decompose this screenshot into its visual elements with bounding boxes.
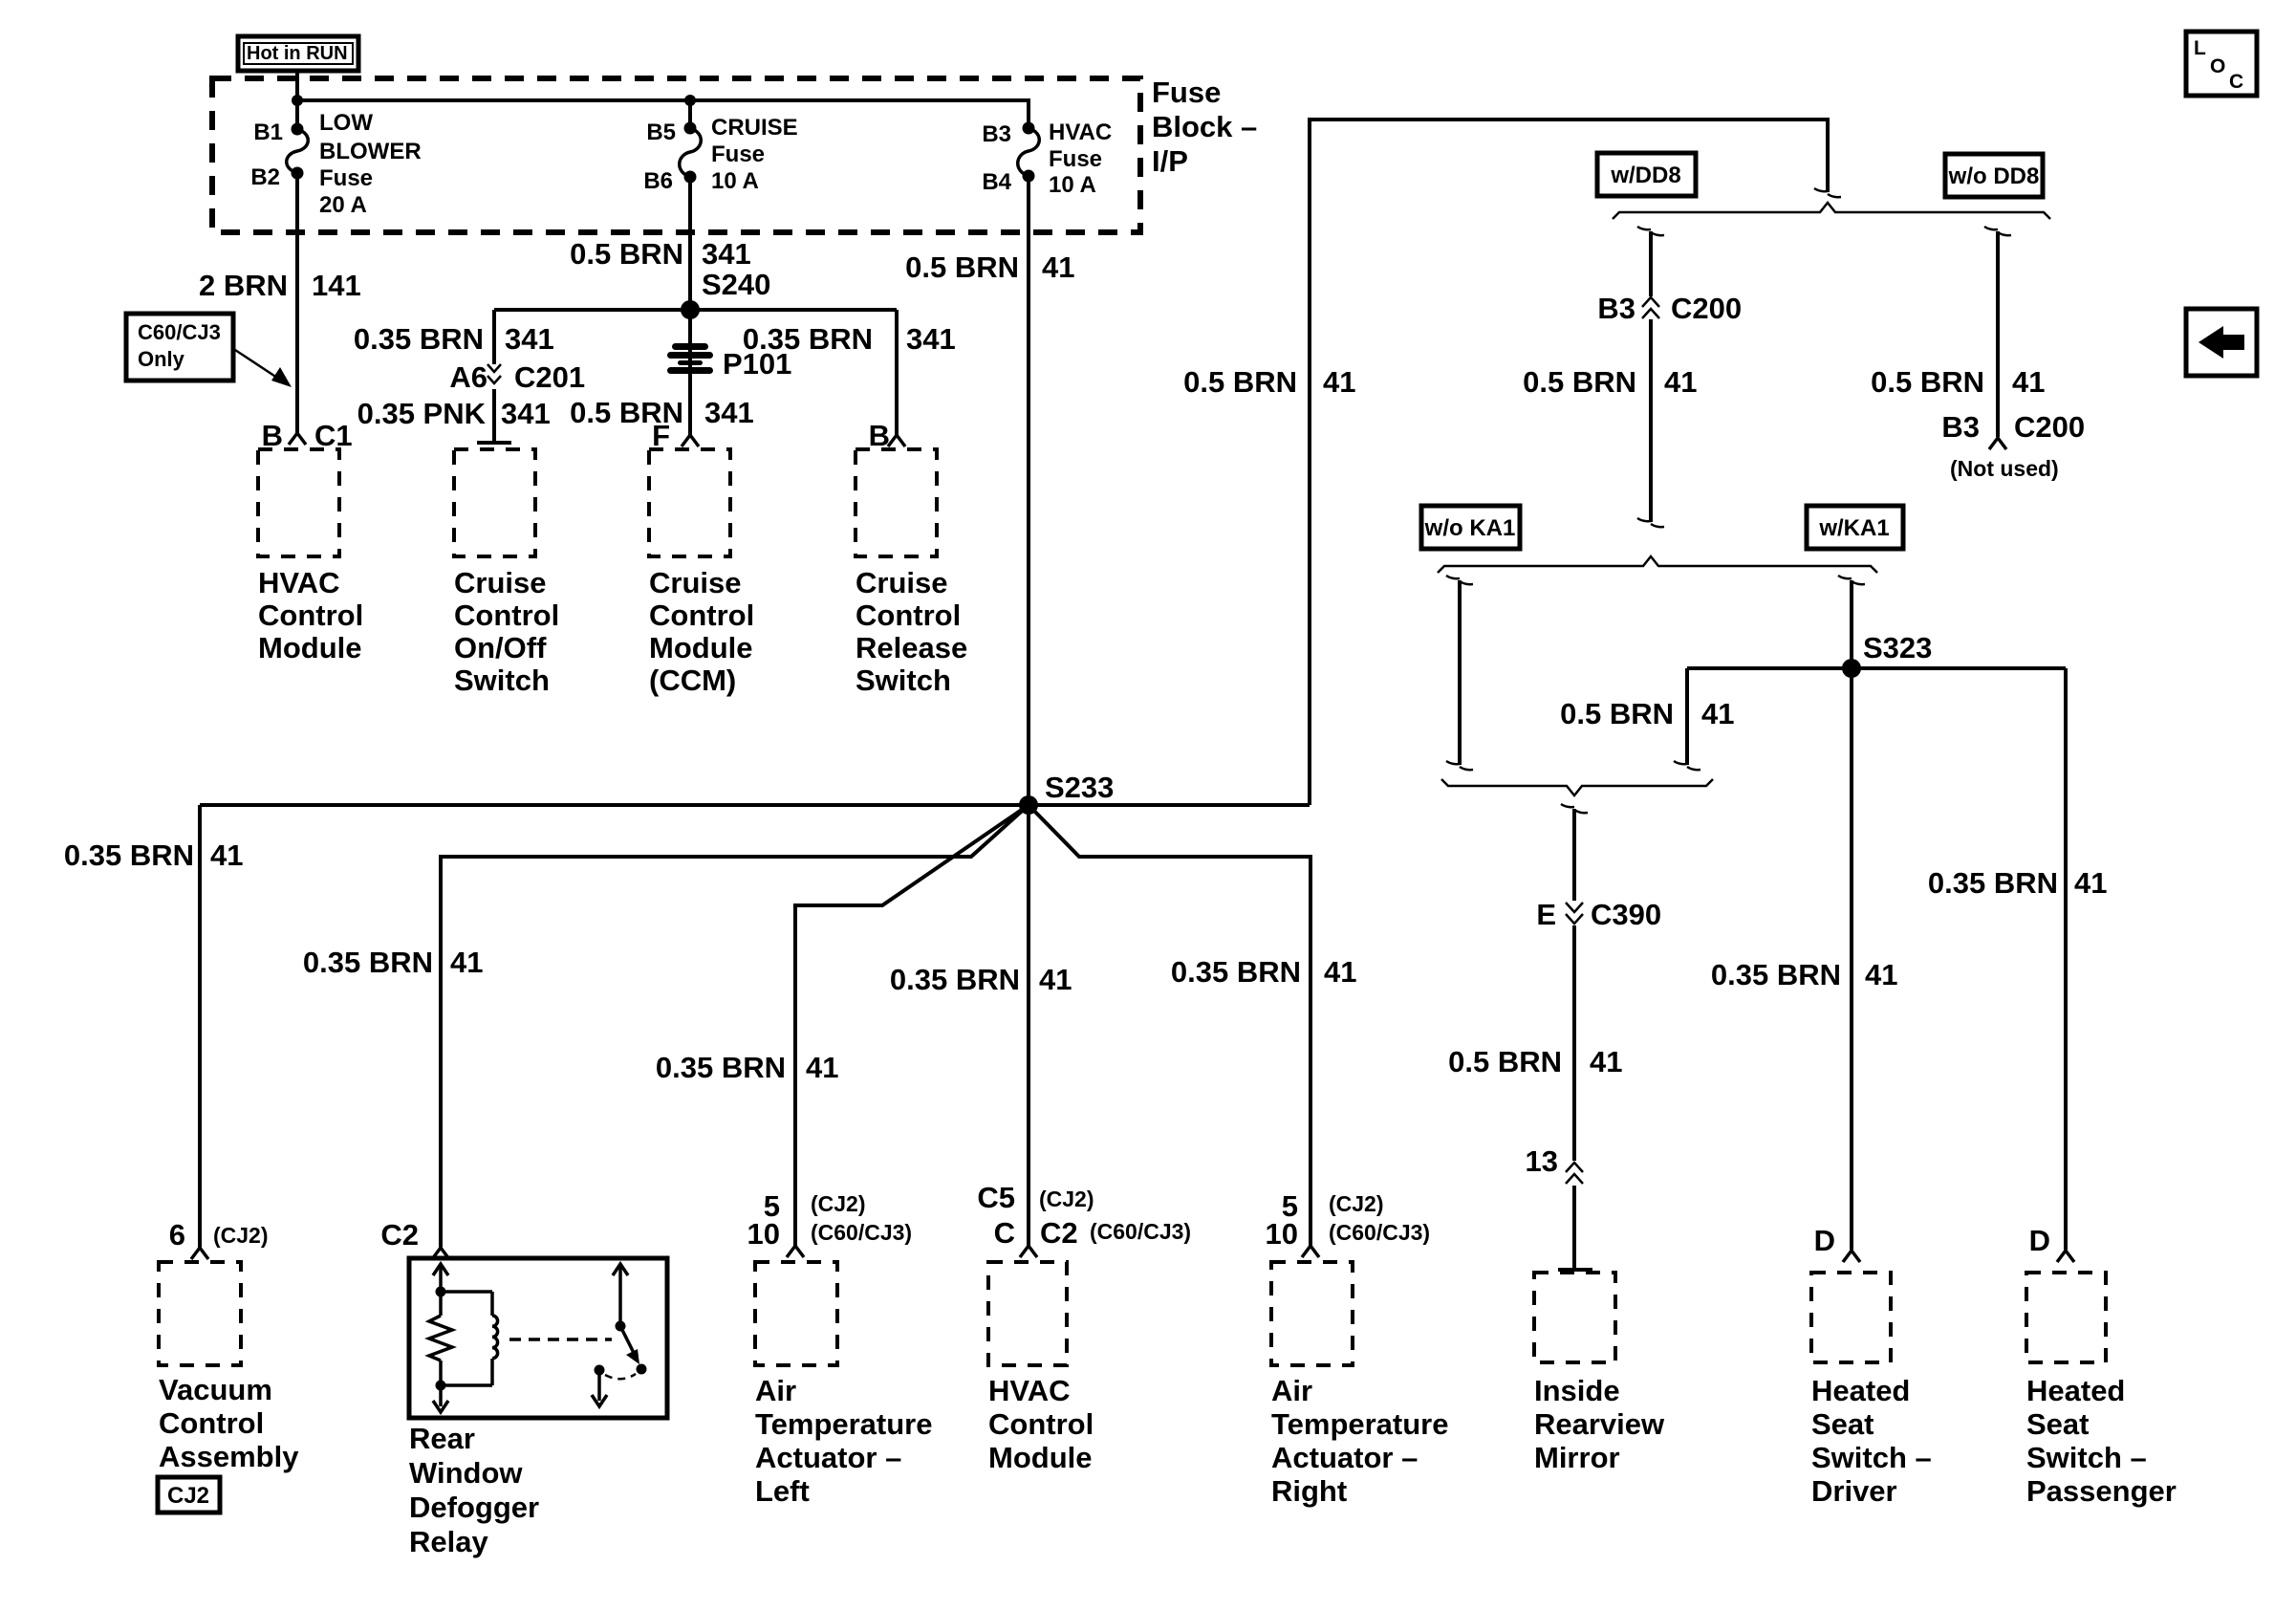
svg-text:Actuator –: Actuator – — [1271, 1441, 1418, 1474]
svg-text:Relay: Relay — [409, 1525, 488, 1558]
svg-text:Fuse: Fuse — [1152, 76, 1221, 109]
svg-text:Cruise: Cruise — [856, 566, 947, 599]
svg-text:C: C — [2229, 71, 2243, 93]
wire B6 to S240 — [688, 177, 692, 310]
svg-text:10 A: 10 A — [711, 168, 759, 194]
wire S323 to merge brace — [1674, 668, 1700, 770]
svg-text:0.35 BRN: 0.35 BRN — [354, 322, 484, 356]
connector E C390 — [1536, 898, 1661, 931]
label 0.35 PNK 341 — [357, 397, 551, 430]
svg-text:B5: B5 — [646, 120, 676, 145]
svg-text:D: D — [1814, 1224, 1835, 1257]
svg-text:Air: Air — [1271, 1374, 1312, 1407]
C60/CJ3 Only note box — [126, 314, 233, 381]
svg-text:341: 341 — [704, 396, 754, 429]
Cruise Control Release Switch connector box — [856, 449, 937, 556]
svg-text:HVAC: HVAC — [1049, 120, 1112, 145]
svg-text:Switch: Switch — [856, 664, 951, 697]
branch to Cruise Control Module CCM — [688, 310, 692, 435]
svg-text:Fuse: Fuse — [319, 165, 373, 191]
node bus-B1 — [292, 95, 303, 106]
label 0.35 BRN 341 — [354, 322, 554, 356]
svg-text:E: E — [1536, 898, 1556, 931]
svg-text:0.5 BRN: 0.5 BRN — [1448, 1045, 1562, 1078]
svg-text:S240: S240 — [702, 268, 770, 301]
svg-text:B2: B2 — [250, 164, 280, 190]
svg-text:41: 41 — [1042, 250, 1074, 284]
svg-text:Heated: Heated — [2026, 1374, 2125, 1407]
svg-text:Air: Air — [755, 1374, 796, 1407]
svg-text:Temperature: Temperature — [755, 1407, 933, 1441]
node bus-B5 — [684, 95, 696, 106]
svg-text:41: 41 — [1664, 365, 1697, 399]
svg-text:L: L — [2194, 37, 2206, 59]
Air Temperature Actuator Right connector box — [1271, 1262, 1353, 1365]
svg-text:Switch –: Switch – — [1811, 1441, 1932, 1474]
wire from Hot in RUN to fuse block bus — [295, 73, 299, 102]
label 0.35 BRN 41 — [656, 1051, 839, 1084]
svg-text:Mirror: Mirror — [1534, 1441, 1620, 1474]
branch wire to Vacuum Control Assembly — [198, 805, 202, 1248]
svg-text:Heated: Heated — [1811, 1374, 1910, 1407]
svg-text:C201: C201 — [514, 360, 585, 394]
svg-text:41: 41 — [1701, 697, 1734, 730]
HVAC Control Module connector box bottom — [988, 1262, 1067, 1365]
svg-text:S233: S233 — [1045, 771, 1114, 804]
Heated Seat Switch Passenger connector box — [2026, 1273, 2106, 1362]
svg-text:w/KA1: w/KA1 — [1818, 515, 1889, 541]
svg-text:LOW: LOW — [319, 110, 373, 136]
wire B4 down to S233, 0.5 BRN 41 — [1027, 176, 1030, 805]
label 0.5 BRN 41 — [1183, 365, 1355, 399]
svg-text:0.5 BRN: 0.5 BRN — [1183, 365, 1297, 399]
svg-text:Passenger: Passenger — [2026, 1474, 2177, 1508]
svg-text:Fuse: Fuse — [711, 142, 765, 167]
svg-text:HVAC: HVAC — [988, 1374, 1071, 1407]
svg-text:Defogger: Defogger — [409, 1491, 539, 1524]
w/DD8 option box — [1597, 153, 1696, 196]
svg-text:Control: Control — [258, 599, 363, 632]
svg-text:(Not used): (Not used) — [1950, 456, 2059, 481]
svg-text:(C60/CJ3): (C60/CJ3) — [1329, 1220, 1430, 1245]
svg-text:0.35 PNK: 0.35 PNK — [357, 397, 487, 430]
w/KA1 branch wire — [1838, 576, 1865, 668]
Cruise Control On/Off Switch connector box — [454, 449, 535, 556]
branch to Cruise Control Release Switch — [895, 310, 899, 435]
connector B3 C200 (Not used) — [1941, 410, 2085, 481]
Hot in RUN label box — [238, 36, 358, 71]
svg-text:Temperature: Temperature — [1271, 1407, 1449, 1441]
svg-text:41: 41 — [450, 946, 483, 979]
svg-text:41: 41 — [1324, 955, 1356, 989]
svg-text:C: C — [994, 1216, 1015, 1250]
svg-text:0.35 BRN: 0.35 BRN — [1928, 866, 2058, 900]
Fuse Block - I/P dashed outline — [212, 78, 1140, 232]
svg-text:C2: C2 — [380, 1218, 419, 1252]
wire end squiggle — [1814, 188, 1841, 197]
svg-text:0.5 BRN: 0.5 BRN — [570, 237, 683, 271]
back arrow box — [2186, 309, 2257, 376]
Inside Rearview Mirror connector box — [1534, 1273, 1615, 1362]
w/o KA1 option box — [1421, 506, 1520, 549]
terminal bar at On/Off switch — [477, 441, 511, 445]
LOC page logo box — [2186, 32, 2257, 96]
w/o DD8 option box — [1945, 154, 2043, 197]
svg-text:(CCM): (CCM) — [649, 664, 736, 697]
svg-text:Control: Control — [159, 1406, 264, 1440]
relay pin line with resistor — [429, 1264, 452, 1412]
label 0.5 BRN 41 — [1560, 697, 1734, 730]
svg-text:B3: B3 — [1597, 292, 1635, 325]
svg-text:41: 41 — [2012, 365, 2045, 399]
svg-text:CJ2: CJ2 — [167, 1483, 209, 1509]
svg-text:0.35 BRN: 0.35 BRN — [743, 322, 873, 356]
svg-text:B1: B1 — [253, 120, 283, 145]
svg-text:Inside: Inside — [1534, 1374, 1620, 1407]
terminal bar at mirror — [1558, 1268, 1592, 1272]
svg-text:(CJ2): (CJ2) — [1329, 1191, 1384, 1216]
label 0.35 BRN 341 — [743, 322, 956, 356]
svg-text:41: 41 — [1323, 365, 1355, 399]
branch to Cruise Control On/Off Switch — [492, 310, 496, 364]
svg-text:0.35 BRN: 0.35 BRN — [1171, 955, 1301, 989]
label 0.35 BRN 41 — [890, 963, 1072, 996]
svg-text:Switch –: Switch – — [2026, 1441, 2147, 1474]
svg-text:Window: Window — [409, 1456, 523, 1490]
svg-text:Rear: Rear — [409, 1422, 475, 1455]
svg-text:Vacuum: Vacuum — [159, 1373, 272, 1406]
svg-text:0.35 BRN: 0.35 BRN — [890, 963, 1020, 996]
svg-text:Hot in RUN: Hot in RUN — [247, 43, 348, 64]
pin F — [652, 419, 699, 452]
svg-text:C390: C390 — [1591, 898, 1661, 931]
svg-text:13: 13 — [1526, 1144, 1558, 1178]
wire stub to B1 — [295, 100, 299, 128]
fuse CRUISE 10A — [643, 115, 797, 194]
svg-text:0.35 BRN: 0.35 BRN — [1711, 958, 1841, 991]
svg-text:6: 6 — [169, 1218, 185, 1252]
svg-text:Cruise: Cruise — [454, 566, 546, 599]
pins 5 10 (CJ2)(C60/CJ3) at Air Temp Left — [747, 1189, 913, 1257]
S233 main horizontal wire — [200, 803, 1310, 807]
svg-text:C200: C200 — [2014, 410, 2085, 444]
CJ2 note box — [158, 1477, 220, 1513]
pin D at Heated Seat Switch Passenger — [2029, 1224, 2074, 1262]
svg-text:Right: Right — [1271, 1474, 1347, 1508]
svg-text:B6: B6 — [643, 168, 673, 194]
svg-text:C2: C2 — [1040, 1216, 1078, 1250]
label 0.35 BRN 41 — [1171, 955, 1357, 989]
options brace KA1 — [1438, 556, 1877, 573]
svg-text:0.5 BRN: 0.5 BRN — [1871, 365, 1984, 399]
relay switch — [592, 1264, 647, 1406]
svg-text:Module: Module — [988, 1441, 1093, 1474]
label 0.5 BRN 341 — [570, 396, 754, 429]
svg-text:41: 41 — [806, 1051, 838, 1084]
svg-text:Release: Release — [856, 631, 967, 664]
svg-text:41: 41 — [1590, 1045, 1622, 1078]
svg-text:O: O — [2210, 55, 2225, 77]
svg-text:CRUISE: CRUISE — [711, 115, 798, 141]
svg-text:0.35 BRN: 0.35 BRN — [64, 838, 194, 872]
svg-text:B: B — [869, 419, 890, 452]
svg-text:On/Off: On/Off — [454, 631, 547, 664]
svg-text:Actuator –: Actuator – — [755, 1441, 901, 1474]
Rear Window Defogger Relay box — [409, 1258, 667, 1418]
branch wire to Air Temperature Actuator Left — [795, 805, 1029, 1246]
svg-text:S323: S323 — [1863, 631, 1932, 664]
svg-text:0.5 BRN: 0.5 BRN — [1560, 697, 1674, 730]
merge brace to C390 — [1441, 779, 1713, 795]
svg-text:Control: Control — [856, 599, 961, 632]
fuse HVAC 10A — [982, 120, 1112, 198]
branch wire to Air Temperature Actuator Right — [1029, 805, 1310, 1246]
pin B / connector C1 — [262, 419, 353, 452]
svg-text:Seat: Seat — [1811, 1407, 1874, 1441]
svg-text:BLOWER: BLOWER — [319, 139, 422, 164]
svg-text:41: 41 — [210, 838, 243, 872]
label 2 BRN 141 — [199, 269, 361, 302]
S240 horizontal wire — [494, 308, 897, 312]
svg-text:I/P: I/P — [1152, 144, 1188, 178]
Air Temperature Actuator Left connector box — [755, 1262, 837, 1365]
svg-text:w/o KA1: w/o KA1 — [1424, 515, 1516, 541]
svg-text:Cruise: Cruise — [649, 566, 741, 599]
svg-text:B: B — [262, 419, 283, 452]
pin B — [869, 419, 905, 452]
svg-text:341: 341 — [501, 397, 551, 430]
bus wire inside fuse block — [297, 100, 1029, 128]
branch wire to Rear Window Defogger Relay — [441, 805, 1029, 1248]
svg-text:141: 141 — [312, 269, 361, 302]
svg-text:41: 41 — [1865, 958, 1897, 991]
S323 horizontal wire — [1687, 666, 2066, 670]
Vacuum Control Assembly connector box — [159, 1262, 241, 1365]
Heated Seat Switch Driver connector box — [1811, 1273, 1891, 1362]
svg-text:0.5 BRN: 0.5 BRN — [1523, 365, 1636, 399]
connector B3 C200 — [1597, 292, 1742, 325]
label 0.5 BRN 41 — [1523, 365, 1697, 399]
wire stub to B5 — [688, 100, 692, 128]
svg-text:(CJ2): (CJ2) — [1039, 1186, 1094, 1211]
w/o DD8 branch wire — [1984, 227, 2011, 437]
svg-text:(C60/CJ3): (C60/CJ3) — [1090, 1219, 1191, 1244]
svg-text:F: F — [652, 419, 670, 452]
arrow from C60/CJ3 box to wire — [235, 350, 292, 387]
label 0.5 BRN 41 — [905, 250, 1074, 284]
wire brace to Inside Rearview Mirror — [1561, 804, 1588, 1270]
svg-text:HVAC: HVAC — [258, 566, 340, 599]
svg-text:341: 341 — [505, 322, 554, 356]
wire S233 up to C200 options, 0.5 BRN 41 — [1310, 120, 1828, 805]
svg-text:B3: B3 — [982, 121, 1011, 147]
svg-text:Fuse: Fuse — [1049, 146, 1102, 172]
wire S323 down to Heated Seat Switch Driver — [1850, 668, 1853, 1250]
svg-text:w/o DD8: w/o DD8 — [1948, 163, 2040, 189]
w/DD8 branch wire — [1637, 227, 1664, 527]
label 0.5 BRN 41 — [1871, 365, 2045, 399]
pins 5 10 (CJ2)(C60/CJ3) at Air Temp Right — [1266, 1189, 1431, 1257]
svg-text:2 BRN: 2 BRN — [199, 269, 288, 302]
svg-text:41: 41 — [2074, 866, 2107, 900]
relay actuation dashed link — [509, 1338, 612, 1341]
svg-text:Control: Control — [454, 599, 559, 632]
svg-text:B4: B4 — [982, 169, 1011, 195]
label 0.35 BRN 41 — [1711, 958, 1898, 991]
svg-text:C5: C5 — [977, 1181, 1015, 1214]
wire S233 down to HVAC Control Module — [1027, 805, 1030, 1246]
label 0.5 BRN 341 — [570, 237, 751, 271]
svg-text:Block –: Block – — [1152, 110, 1257, 143]
svg-text:D: D — [2029, 1224, 2050, 1257]
svg-text:Seat: Seat — [2026, 1407, 2089, 1441]
svg-text:Control: Control — [988, 1407, 1094, 1441]
svg-text:0.5 BRN: 0.5 BRN — [905, 250, 1019, 284]
label 0.35 BRN 41 — [303, 946, 484, 979]
label 0.5 BRN 41 — [1448, 1045, 1622, 1078]
svg-text:Assembly: Assembly — [159, 1440, 299, 1473]
pin D at Heated Seat Switch Driver — [1814, 1224, 1860, 1262]
svg-text:B3: B3 — [1941, 410, 1980, 444]
wire B2 to HVAC Control Module, 2 BRN 141 — [295, 173, 299, 433]
svg-text:Left: Left — [755, 1474, 810, 1508]
HVAC Control Module connector box — [258, 449, 339, 556]
svg-text:0.35 BRN: 0.35 BRN — [656, 1051, 786, 1084]
svg-text:10: 10 — [1266, 1217, 1298, 1251]
splice pack P101 — [667, 343, 791, 381]
Cruise Control Module (CCM) connector box — [649, 449, 730, 556]
svg-text:w/DD8: w/DD8 — [1610, 163, 1680, 188]
connector C2 at relay — [380, 1218, 449, 1259]
pin 6 (CJ2) — [169, 1218, 269, 1259]
svg-text:Switch: Switch — [454, 664, 550, 697]
svg-text:C1: C1 — [314, 419, 353, 452]
svg-text:(C60/CJ3): (C60/CJ3) — [811, 1220, 912, 1245]
Fuse Block - I/P name — [1152, 76, 1257, 178]
svg-text:(CJ2): (CJ2) — [213, 1223, 269, 1248]
svg-text:341: 341 — [702, 237, 751, 271]
svg-text:10 A: 10 A — [1049, 172, 1096, 198]
svg-text:41: 41 — [1039, 963, 1072, 996]
relay coil — [441, 1292, 498, 1385]
svg-text:341: 341 — [906, 322, 956, 356]
connector A6 C201 — [449, 360, 585, 394]
svg-text:Module: Module — [649, 631, 753, 664]
label 0.35 BRN 41 — [64, 838, 244, 872]
w/o KA1 branch wire — [1446, 576, 1473, 770]
pins C5 C C2 at HVAC Control Module — [977, 1181, 1191, 1257]
w/KA1 option box — [1807, 506, 1903, 549]
svg-text:C60/CJ3: C60/CJ3 — [138, 320, 221, 344]
pin 13 connector — [1526, 1144, 1583, 1184]
fuse LOW BLOWER 20A — [250, 110, 421, 218]
svg-text:Only: Only — [138, 347, 185, 371]
svg-text:(CJ2): (CJ2) — [811, 1191, 866, 1216]
svg-text:C200: C200 — [1671, 292, 1742, 325]
svg-text:Driver: Driver — [1811, 1474, 1897, 1508]
svg-text:Control: Control — [649, 599, 754, 632]
svg-text:20 A: 20 A — [319, 192, 367, 218]
options brace DD8 — [1613, 203, 2050, 219]
svg-text:0.35 BRN: 0.35 BRN — [303, 946, 433, 979]
svg-text:Rearview: Rearview — [1534, 1407, 1665, 1441]
wire S323 down to Heated Seat Switch Passenger — [2064, 668, 2068, 1250]
label 0.35 BRN 41 — [1928, 866, 2108, 900]
svg-text:Module: Module — [258, 631, 362, 664]
svg-text:A6: A6 — [449, 360, 487, 394]
svg-text:10: 10 — [747, 1217, 780, 1251]
